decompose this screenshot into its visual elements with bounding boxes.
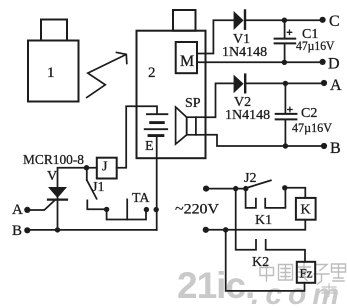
capacitor C1 47u16V (275, 20, 296, 62)
svg-text:A: A (330, 77, 342, 94)
wire K2 return loop (226, 230, 305, 291)
terminal D (320, 56, 340, 73)
svg-text:J1: J1 (92, 180, 104, 195)
node J1 top (84, 165, 89, 170)
svg-text:SP: SP (185, 96, 201, 111)
svg-text:1N4148: 1N4148 (222, 45, 267, 60)
node C2 bottom (283, 143, 288, 148)
node C1 top (282, 18, 287, 23)
svg-text:J: J (102, 160, 108, 175)
receiver box 2 (137, 10, 206, 158)
svg-text:Fz: Fz (300, 266, 313, 281)
speaker SP (176, 107, 206, 144)
terminal mains lower (203, 227, 209, 233)
node J2 contact (282, 185, 287, 190)
node J2 pivot (243, 186, 248, 191)
svg-text:2: 2 (148, 65, 156, 81)
relay K box (296, 198, 316, 220)
svg-text:1N4148: 1N4148 (225, 108, 270, 123)
terminal A (321, 77, 342, 94)
wire J2 to K (285, 188, 306, 198)
svg-text:~220V: ~220V (175, 202, 219, 218)
wire SP to V2 (206, 83, 234, 117)
diode V1 1N4148 (234, 11, 245, 31)
switch J2 blade (246, 180, 271, 188)
terminal C (320, 13, 340, 30)
relay coil J (97, 158, 117, 179)
svg-text:J2: J2 (244, 171, 256, 186)
capacitor C2 47u16V (276, 83, 297, 146)
svg-text:A: A (12, 202, 23, 218)
switch J1 (87, 168, 107, 209)
svg-text:1: 1 (47, 65, 55, 81)
svg-text:47µ16V: 47µ16V (292, 120, 333, 135)
node TA battery (154, 207, 159, 212)
node C2 top (283, 81, 288, 86)
svg-text:K: K (301, 203, 311, 218)
svg-text:D: D (328, 56, 340, 73)
watermark 21ic.com 中国电子网 (177, 263, 346, 308)
terminal A left (12, 202, 30, 218)
contact K1 (246, 188, 286, 208)
contact K2 (236, 189, 305, 262)
svg-text:K2: K2 (252, 255, 269, 270)
terminal B (321, 140, 341, 157)
svg-text:C2: C2 (301, 106, 317, 121)
svg-text:MCR100-8: MCR100-8 (23, 153, 84, 168)
terminal mains upper (203, 186, 209, 192)
wire J to box 2 (117, 106, 137, 167)
transmitter box 1 (28, 20, 79, 102)
motor M box (176, 42, 197, 73)
terminal B left (12, 223, 30, 239)
battery E (137, 106, 168, 209)
thyristor V MCR100-8 (28, 187, 67, 230)
mains upper wire (206, 188, 246, 190)
thyristor V anode wire to J (58, 168, 97, 199)
svg-text:TA: TA (132, 191, 150, 206)
transformer TA (107, 199, 146, 219)
node TA right (144, 207, 149, 212)
svg-text:M: M (180, 53, 194, 70)
svg-text:E: E (145, 139, 154, 154)
diode V2 1N4148 (234, 75, 246, 94)
node thyristor cathode (55, 227, 60, 232)
wire SP to B (206, 135, 325, 146)
svg-text:21ic.: 21ic. (177, 265, 254, 306)
svg-text:47µ16V: 47µ16V (296, 38, 335, 53)
wire B line (27, 229, 156, 231)
load Fz box (297, 262, 315, 283)
mains lower wire to K (206, 220, 305, 230)
node C1 bottom (282, 60, 287, 65)
svg-text:K1: K1 (255, 213, 272, 228)
svg-text:C: C (329, 13, 340, 30)
svg-text:B: B (330, 140, 341, 157)
RF zigzag arrow (87, 53, 127, 98)
wire M to V1 (197, 20, 234, 53)
wire V1 to C (246, 19, 323, 21)
node K2 branch (223, 227, 228, 232)
node TA left (104, 207, 109, 212)
wire V2 to A (246, 82, 324, 84)
svg-text:V: V (47, 169, 57, 184)
node K2 feed (233, 186, 238, 191)
svg-text:B: B (12, 223, 22, 239)
wire battery to B line (156, 210, 158, 230)
wire M to D (197, 61, 323, 63)
